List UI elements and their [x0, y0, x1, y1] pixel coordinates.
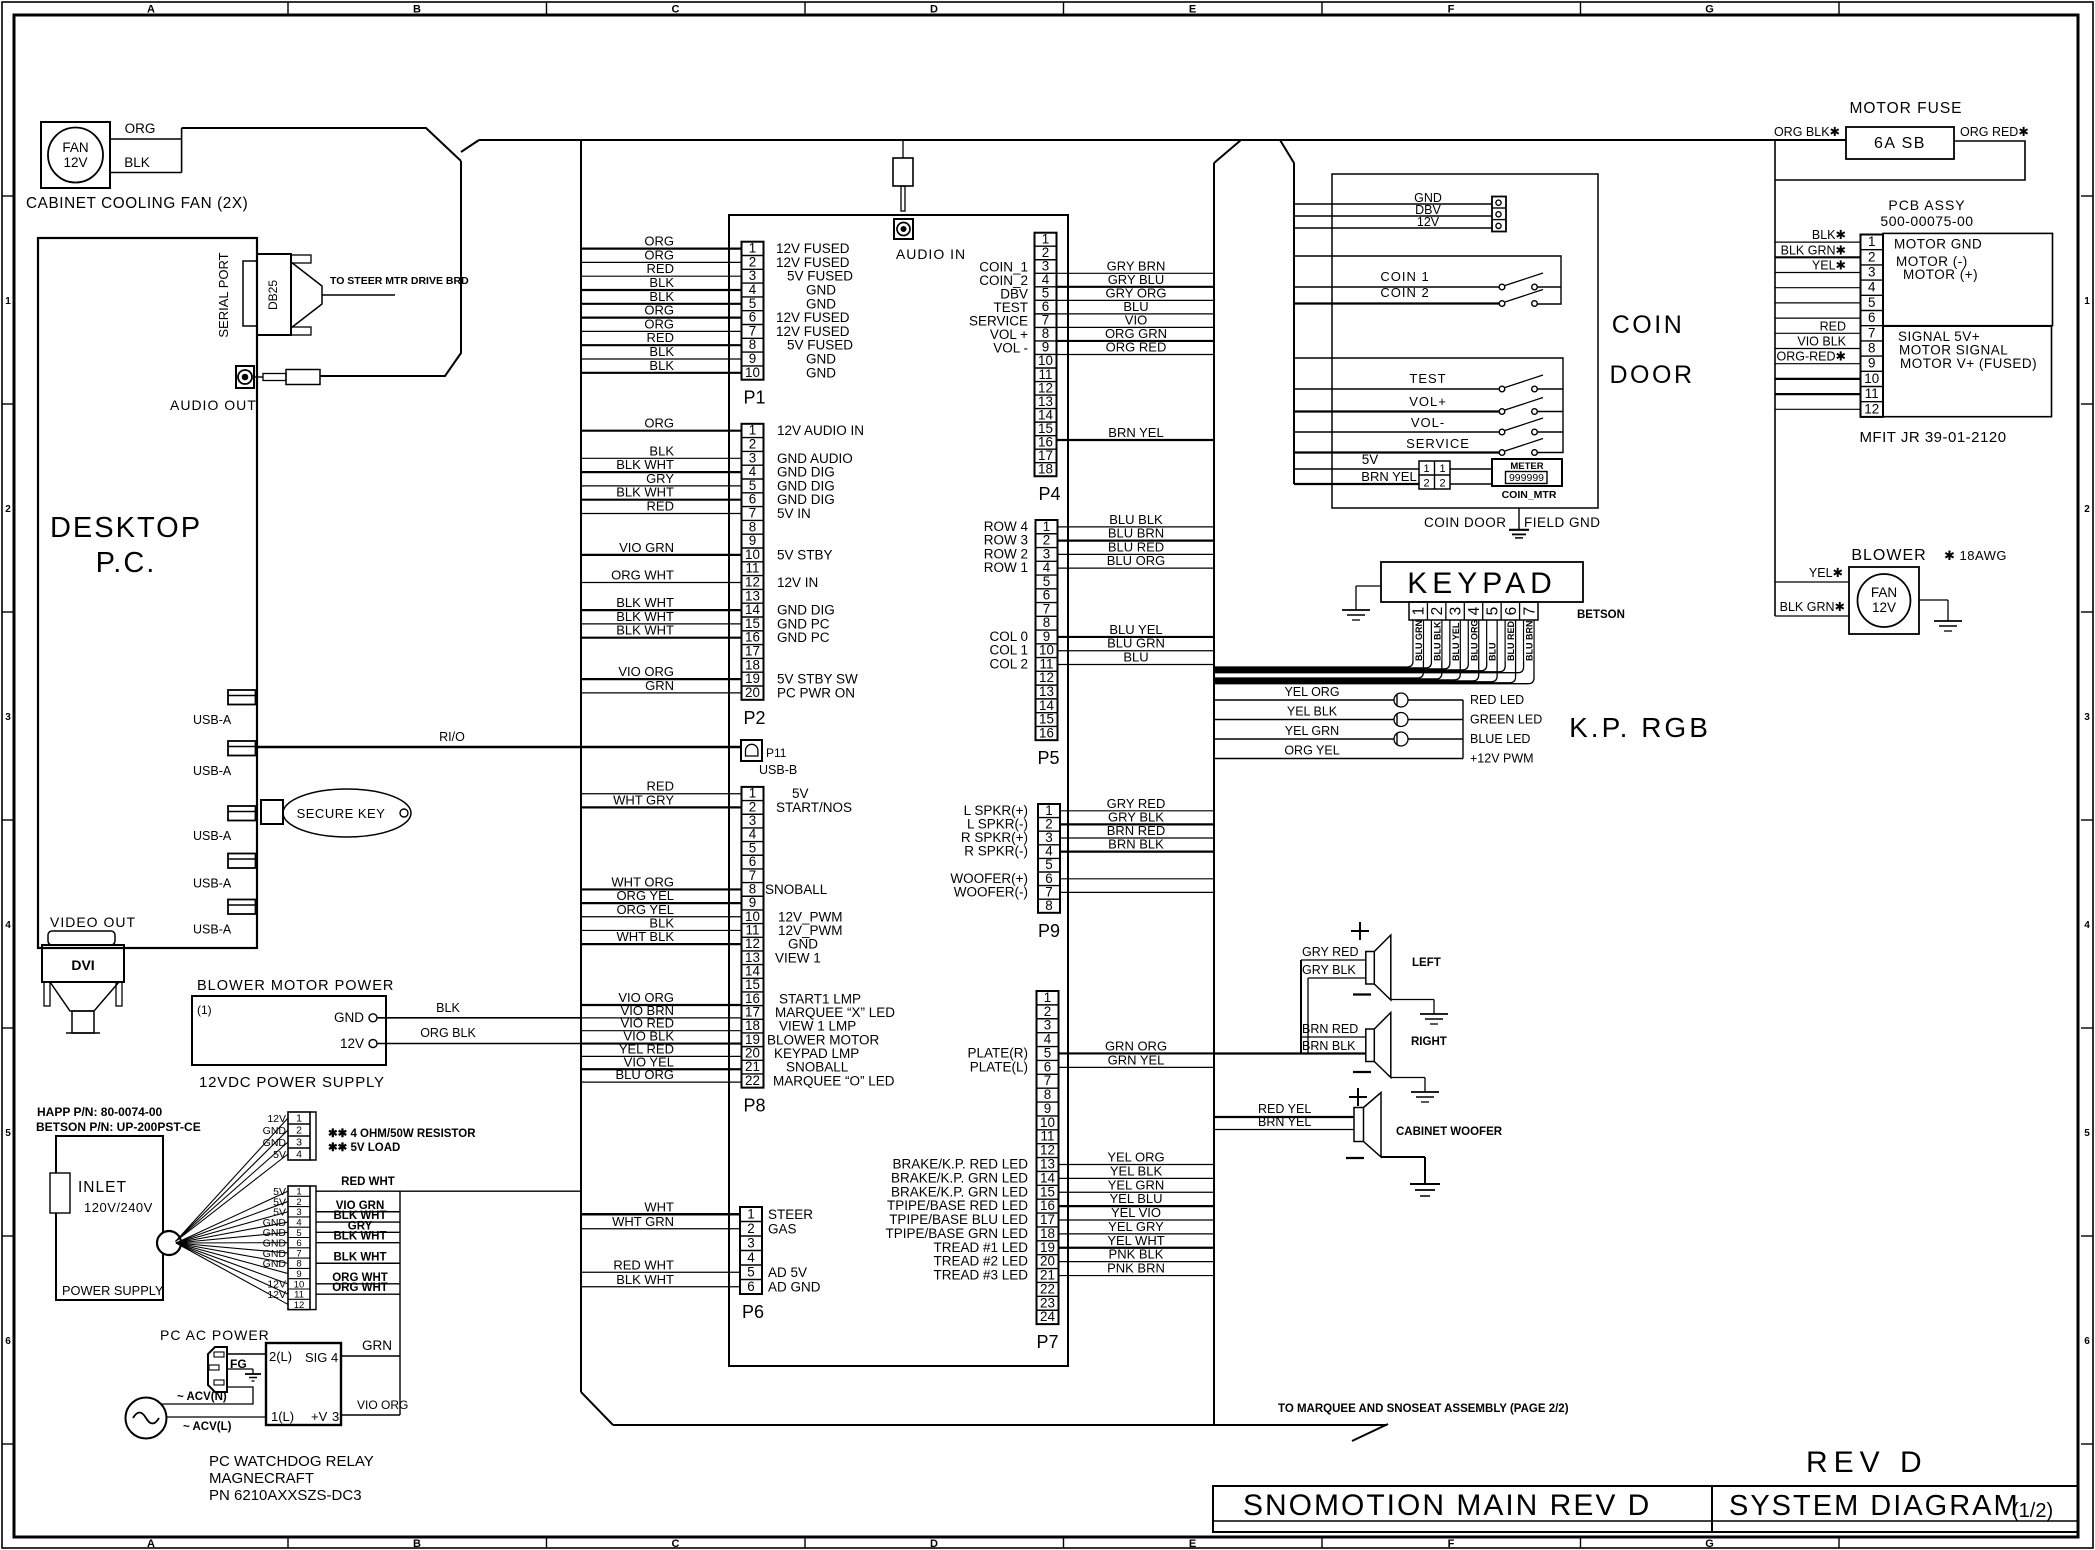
svg-text:GND: GND [806, 352, 836, 367]
power supply 12-pin connector [263, 1186, 316, 1311]
P5 harness wires (keypad rows/cols) [1058, 512, 1215, 665]
svg-text:1: 1 [1868, 234, 1875, 249]
wire RI/O from USB to P11 [256, 746, 742, 748]
svg-text:C: C [672, 4, 680, 16]
svg-text:2: 2 [749, 437, 756, 452]
svg-text:USB-A: USB-A [193, 923, 232, 937]
svg-text:GRN YEL: GRN YEL [1108, 1052, 1165, 1067]
svg-text:1: 1 [747, 1206, 754, 1221]
P2 harness wires [581, 416, 742, 693]
svg-text:BLK WHT: BLK WHT [616, 609, 674, 624]
svg-text:BLK WHT: BLK WHT [616, 485, 674, 500]
right trunk diagonal [1214, 140, 1241, 163]
svg-text:GND DIG: GND DIG [777, 465, 835, 480]
svg-text:2: 2 [1044, 1004, 1051, 1019]
svg-text:6A SB: 6A SB [1874, 135, 1926, 152]
svg-text:MARQUEE “O” LED: MARQUEE “O” LED [773, 1073, 895, 1088]
svg-text:2: 2 [296, 1125, 302, 1137]
svg-text:METER: METER [1510, 461, 1543, 472]
svg-text:BRN YEL: BRN YEL [1108, 425, 1163, 440]
svg-text:1: 1 [1439, 463, 1445, 475]
svg-text:G: G [1705, 1538, 1714, 1550]
P9 pin functions [950, 803, 1028, 900]
svg-text:VIO ORG: VIO ORG [618, 664, 674, 679]
svg-text:1: 1 [749, 423, 756, 438]
USB-A port 1 [193, 690, 256, 727]
svg-text:BLK WHT: BLK WHT [616, 595, 674, 610]
svg-text:20: 20 [1040, 1254, 1055, 1269]
right speaker [1353, 1013, 1447, 1078]
PC power harness wires [316, 1176, 581, 1294]
svg-text:VIO BLK: VIO BLK [1797, 335, 1846, 349]
wire VIO ORG relay +V3 [341, 1398, 408, 1415]
svg-text:5: 5 [1868, 295, 1875, 310]
svg-text:AD 5V: AD 5V [768, 1265, 807, 1280]
cabinet cooling fan FAN 12V [41, 122, 110, 188]
svg-text:BLU RED: BLU RED [1506, 621, 1516, 661]
svg-text:RED LED: RED LED [1470, 693, 1524, 707]
svg-text:VOL-: VOL- [1411, 415, 1445, 430]
svg-text:14: 14 [1039, 698, 1054, 713]
connector P6 [740, 1206, 764, 1322]
svg-text:5: 5 [749, 296, 756, 311]
USB-A port 3 [193, 806, 256, 843]
svg-text:2: 2 [1439, 478, 1445, 490]
svg-text:R SPKR(-): R SPKR(-) [964, 844, 1028, 859]
svg-text:6: 6 [1043, 588, 1050, 603]
svg-text:BLOWER: BLOWER [1851, 547, 1926, 564]
keypad pin header 1-7 [1409, 602, 1538, 620]
svg-text:PC AC POWER: PC AC POWER [160, 1327, 270, 1343]
svg-text:(1): (1) [197, 1003, 212, 1017]
svg-text:BRN YEL: BRN YEL [1361, 469, 1416, 484]
svg-text:12V: 12V [63, 155, 87, 170]
svg-text:YEL✱: YEL✱ [1812, 259, 1847, 273]
coin door box [1332, 174, 1598, 508]
svg-text:B: B [413, 1538, 421, 1550]
svg-text:ORG: ORG [644, 303, 674, 318]
svg-text:ORG YEL: ORG YEL [1284, 744, 1339, 758]
svg-text:USB-A: USB-A [193, 764, 232, 778]
svg-text:9: 9 [749, 351, 756, 366]
svg-text:BLU BRN: BLU BRN [1108, 526, 1164, 541]
svg-text:999999: 999999 [1509, 472, 1544, 484]
svg-text:TO MARQUEE AND SNOSEAT ASSEMB: TO MARQUEE AND SNOSEAT ASSEMBLY (PAGE 2/… [1278, 1403, 1569, 1415]
svg-text:BLK WHT: BLK WHT [616, 623, 674, 638]
svg-text:12V: 12V [1872, 600, 1896, 615]
svg-text:BLU: BLU [1488, 643, 1498, 662]
svg-text:RED: RED [647, 330, 674, 345]
svg-text:13: 13 [745, 588, 760, 603]
svg-text:5V FUSED: 5V FUSED [787, 338, 853, 353]
serial port DB25 connector [243, 254, 322, 335]
svg-text:GND: GND [263, 1258, 287, 1270]
secure key dongle [261, 789, 411, 837]
svg-text:BLU ORG: BLU ORG [1469, 620, 1479, 662]
svg-text:2: 2 [749, 254, 756, 269]
svg-text:ORG RED: ORG RED [1106, 339, 1167, 354]
svg-text:14: 14 [745, 602, 760, 617]
svg-text:TPIPE/BASE RED LED: TPIPE/BASE RED LED [887, 1198, 1028, 1213]
svg-text:500-00075-00: 500-00075-00 [1880, 213, 1973, 229]
VOL+ wire and switch [1294, 394, 1543, 414]
svg-text:6: 6 [1503, 607, 1520, 616]
svg-text:BLK WHT: BLK WHT [333, 1231, 386, 1243]
svg-text:5: 5 [2084, 1128, 2090, 1139]
svg-text:VIO ORG: VIO ORG [357, 1398, 408, 1412]
svg-text:P1: P1 [744, 388, 766, 408]
svg-text:10: 10 [745, 547, 760, 562]
wire ORG BLK blower 12V [377, 1026, 581, 1044]
svg-text:RED WHT: RED WHT [613, 1257, 674, 1272]
USB-A port 2 [193, 741, 256, 778]
svg-text:COL 1: COL 1 [989, 643, 1028, 658]
svg-text:✱ 18AWG: ✱ 18AWG [1944, 548, 2007, 563]
svg-text:MOTOR GND: MOTOR GND [1894, 237, 1982, 252]
labels 4 OHM/50W RESISTOR, 5V LOAD [328, 1128, 476, 1154]
svg-text:15: 15 [1039, 712, 1054, 727]
svg-text:12: 12 [745, 575, 760, 590]
svg-text:2: 2 [2084, 504, 2090, 515]
svg-text:CABINET WOOFER: CABINET WOOFER [1396, 1126, 1503, 1138]
svg-text:USB-A: USB-A [193, 829, 232, 843]
svg-text:13: 13 [1039, 684, 1054, 699]
svg-text:✱✱ 4 OHM/50W RESISTOR: ✱✱ 4 OHM/50W RESISTOR [328, 1128, 476, 1140]
top harness bus wire [479, 139, 1846, 141]
P8 pin functions [765, 786, 895, 1088]
title text SYSTEM DIAGRAM (1/2) [1729, 1490, 2053, 1522]
svg-text:5V STBY SW: 5V STBY SW [777, 672, 858, 687]
svg-text:GRN: GRN [362, 1338, 392, 1353]
svg-text:12: 12 [1864, 401, 1879, 416]
svg-text:7: 7 [1043, 601, 1050, 616]
svg-text:12: 12 [1040, 1143, 1055, 1158]
cabinet woofer ground [1381, 1157, 1440, 1196]
svg-text:11: 11 [746, 561, 760, 576]
svg-text:2: 2 [1429, 607, 1446, 616]
svg-text:PNK BRN: PNK BRN [1107, 1261, 1165, 1276]
svg-text:REV D: REV D [1806, 1446, 1928, 1479]
svg-text:LEFT: LEFT [1412, 957, 1441, 969]
svg-text:MFIT JR 39-01-2120: MFIT JR 39-01-2120 [1859, 429, 2006, 446]
blower fan FAN 12V [1849, 567, 1919, 634]
label COIN DOOR / FIELD GND [1424, 515, 1601, 530]
svg-text:PC PWR ON: PC PWR ON [777, 685, 855, 700]
coin 2 wire and switch [1294, 290, 1543, 307]
svg-text:1: 1 [1423, 463, 1429, 475]
svg-text:5V: 5V [273, 1149, 286, 1161]
svg-text:4: 4 [331, 1350, 338, 1365]
svg-text:10: 10 [1864, 371, 1879, 386]
svg-text:ORG WHT: ORG WHT [611, 568, 674, 583]
svg-text:8: 8 [749, 519, 756, 534]
svg-text:SECURE KEY: SECURE KEY [297, 806, 386, 821]
svg-text:5: 5 [1043, 574, 1050, 589]
svg-text:8: 8 [749, 337, 756, 352]
svg-text:YEL BLU: YEL BLU [1110, 1191, 1163, 1206]
svg-text:GREEN LED: GREEN LED [1470, 713, 1542, 727]
svg-text:BLK: BLK [649, 275, 674, 290]
svg-text:6: 6 [2084, 1336, 2090, 1347]
svg-text:GND: GND [806, 365, 836, 380]
svg-text:GND DIG: GND DIG [777, 478, 835, 493]
svg-text:P6: P6 [742, 1302, 764, 1322]
svg-text:USB-B: USB-B [759, 763, 797, 777]
svg-text:WOOFER(-): WOOFER(-) [954, 884, 1028, 899]
svg-text:~ ACV(N): ~ ACV(N) [177, 1391, 227, 1403]
svg-text:VOL+: VOL+ [1409, 394, 1447, 409]
svg-text:DESKTOP: DESKTOP [50, 512, 202, 544]
svg-text:(1/2): (1/2) [2012, 1500, 2053, 1522]
keypad harness ribbon wires to trunk [1215, 620, 1535, 684]
svg-text:4: 4 [1043, 560, 1051, 575]
svg-text:12V IN: 12V IN [777, 575, 818, 590]
svg-text:FAN: FAN [62, 140, 88, 155]
svg-text:5: 5 [1484, 607, 1501, 616]
svg-text:COL 0: COL 0 [989, 629, 1028, 644]
svg-text:2: 2 [1043, 533, 1050, 548]
svg-text:BETSON: BETSON [1577, 609, 1625, 621]
svg-text:HAPP P/N: 80-0074-00: HAPP P/N: 80-0074-00 [37, 1105, 163, 1119]
wire nest node [157, 1231, 181, 1255]
audio in jack [894, 219, 913, 239]
svg-text:5V STBY: 5V STBY [777, 547, 833, 562]
wire GRN relay SIG4 [341, 1338, 400, 1356]
svg-text:START/NOS: START/NOS [776, 800, 852, 815]
coin meter 2x2 connector [1294, 452, 1450, 490]
svg-text:INLET: INLET [78, 1179, 127, 1196]
svg-text:12V AUDIO IN: 12V AUDIO IN [777, 423, 864, 438]
svg-text:BETSON P/N: UP-200PST-CE: BETSON P/N: UP-200PST-CE [36, 1120, 201, 1134]
svg-text:GRY BLK: GRY BLK [1302, 963, 1356, 977]
svg-text:SERVICE: SERVICE [1406, 436, 1470, 451]
svg-text:8: 8 [1043, 615, 1050, 630]
svg-text:+V: +V [311, 1409, 328, 1424]
left speaker [1351, 922, 1441, 1000]
coin meter METER 999999 [1450, 459, 1562, 501]
svg-text:BRN YEL: BRN YEL [1258, 1115, 1311, 1129]
audio-out trunk vertical [320, 161, 461, 376]
svg-text:YEL GRY: YEL GRY [1108, 1219, 1164, 1234]
svg-text:11: 11 [1865, 386, 1879, 401]
svg-text:BLU BLK: BLU BLK [1432, 621, 1442, 661]
svg-text:3: 3 [1448, 607, 1465, 616]
svg-text:2: 2 [1423, 478, 1429, 490]
svg-text:YEL BLK: YEL BLK [1110, 1163, 1163, 1178]
svg-text:ORG: ORG [644, 316, 674, 331]
connector P2 [742, 423, 766, 728]
svg-text:4: 4 [5, 920, 11, 931]
svg-text:YEL✱: YEL✱ [1809, 566, 1844, 580]
svg-text:BLK WHT: BLK WHT [333, 1251, 386, 1263]
svg-text:COIN: COIN [1612, 311, 1685, 339]
svg-text:A: A [147, 4, 155, 16]
svg-text:1: 1 [1044, 990, 1051, 1005]
relay bus vertical [399, 1191, 401, 1415]
keypad ground stub [1342, 586, 1381, 620]
svg-text:14: 14 [1040, 1170, 1055, 1185]
svg-text:13: 13 [1040, 1157, 1055, 1172]
svg-text:12V: 12V [340, 1036, 364, 1051]
svg-text:RED: RED [647, 499, 674, 514]
svg-text:ROW 3: ROW 3 [984, 533, 1028, 548]
svg-text:RED: RED [647, 261, 674, 276]
svg-text:K.P. RGB: K.P. RGB [1569, 712, 1711, 743]
connector P4 [1035, 231, 1061, 504]
svg-text:BRAKE/K.P. RED LED: BRAKE/K.P. RED LED [892, 1157, 1028, 1172]
svg-text:POWER SUPPLY: POWER SUPPLY [62, 1283, 164, 1298]
test/vol/service switch box [1294, 358, 1563, 453]
audio in plug [893, 140, 913, 211]
IEC power plug [208, 1347, 227, 1392]
svg-text:15: 15 [1040, 1184, 1055, 1199]
svg-text:FIELD GND: FIELD GND [1524, 515, 1601, 530]
svg-text:20: 20 [745, 685, 760, 700]
svg-text:10: 10 [1040, 1115, 1055, 1130]
AC source symbol [126, 1398, 167, 1439]
svg-text:GRN ORG: GRN ORG [1105, 1038, 1167, 1053]
audio out plug [254, 370, 320, 385]
svg-text:MOTOR V+ (FUSED): MOTOR V+ (FUSED) [1900, 356, 2037, 371]
svg-text:BRAKE/K.P. GRN LED: BRAKE/K.P. GRN LED [891, 1170, 1028, 1185]
svg-text:VIO GRN: VIO GRN [619, 540, 674, 555]
svg-text:ORG: ORG [644, 416, 674, 431]
svg-text:ORG WHT: ORG WHT [332, 1282, 388, 1294]
right speaker wires BRN RED / BRN BLK [1301, 1022, 1366, 1053]
LED lamp symbols [1394, 693, 1408, 746]
svg-text:AUDIO IN: AUDIO IN [896, 246, 966, 262]
svg-text:18: 18 [1038, 461, 1053, 476]
svg-text:4: 4 [296, 1149, 302, 1161]
svg-text:1: 1 [749, 241, 756, 256]
svg-text:12V FUSED: 12V FUSED [776, 255, 850, 270]
svg-text:15: 15 [745, 616, 760, 631]
svg-text:RIGHT: RIGHT [1411, 1036, 1447, 1048]
svg-text:19: 19 [1040, 1240, 1055, 1255]
svg-text:✱✱ 5V LOAD: ✱✱ 5V LOAD [328, 1142, 400, 1154]
svg-text:SIG: SIG [305, 1350, 327, 1365]
left speaker ground [1391, 1000, 1448, 1025]
coin 1 wire and switch [1294, 273, 1543, 290]
svg-text:ORG RED✱: ORG RED✱ [1960, 125, 2029, 139]
svg-text:TO STEER MTR DRIVE BRD: TO STEER MTR DRIVE BRD [330, 275, 469, 287]
wire ACV(L) [167, 1417, 267, 1433]
speaker feed bus from trunk [1214, 960, 1366, 1054]
svg-text:SNOBALL: SNOBALL [765, 882, 828, 897]
wire BLK blower gnd [377, 1001, 581, 1018]
svg-text:BLK WHT: BLK WHT [616, 457, 674, 472]
svg-text:YEL WHT: YEL WHT [1107, 1233, 1164, 1248]
svg-text:12: 12 [1039, 670, 1054, 685]
row numbers right [2084, 296, 2090, 1347]
coin switch box COIN1/COIN2 [1294, 256, 1561, 304]
svg-text:BLU GRN: BLU GRN [1107, 636, 1165, 651]
svg-text:6: 6 [1044, 1059, 1051, 1074]
svg-text:4: 4 [1868, 280, 1876, 295]
main I/O board outline [729, 215, 1068, 1366]
svg-text:D: D [930, 1538, 938, 1550]
USB-B connector P11 [741, 740, 797, 777]
svg-text:GND: GND [806, 296, 836, 311]
svg-text:GND PC: GND PC [777, 616, 830, 631]
DVI connector [42, 931, 124, 1033]
svg-text:GND PC: GND PC [777, 630, 830, 645]
svg-text:6: 6 [5, 1336, 11, 1347]
svg-text:8: 8 [1044, 1087, 1051, 1102]
svg-text:BLK: BLK [649, 289, 674, 304]
right harness trunk vertical [1213, 163, 1215, 1425]
svg-text:YEL VIO: YEL VIO [1111, 1205, 1161, 1220]
svg-text:P8: P8 [744, 1096, 766, 1116]
svg-text:YEL BLK: YEL BLK [1287, 705, 1338, 719]
svg-text:8: 8 [1045, 898, 1052, 913]
svg-text:TPIPE/BASE BLU LED: TPIPE/BASE BLU LED [889, 1212, 1028, 1227]
svg-text:TEST: TEST [1409, 371, 1446, 386]
svg-text:6: 6 [1868, 310, 1875, 325]
svg-text:FAN: FAN [1871, 585, 1897, 600]
svg-text:BLK WHT: BLK WHT [616, 1272, 674, 1287]
svg-text:10: 10 [1039, 643, 1054, 658]
svg-text:3: 3 [749, 268, 756, 283]
labels HAPP/BETSON part numbers [36, 1105, 201, 1134]
svg-text:AUDIO OUT: AUDIO OUT [170, 397, 257, 413]
svg-text:P4: P4 [1039, 484, 1061, 504]
motor fuse 6A SB [1774, 125, 2029, 159]
svg-text:GAS: GAS [768, 1221, 797, 1236]
svg-text:DOOR: DOOR [1610, 361, 1695, 389]
svg-text:TREAD #2 LED: TREAD #2 LED [933, 1254, 1028, 1269]
svg-text:PC WATCHDOG RELAY: PC WATCHDOG RELAY [209, 1453, 374, 1470]
svg-text:4: 4 [749, 282, 757, 297]
PCB assy function boxes [1883, 233, 2053, 416]
svg-text:BLK: BLK [649, 443, 674, 458]
svg-text:7: 7 [1868, 325, 1875, 340]
svg-text:ORG BLK: ORG BLK [420, 1026, 476, 1040]
connector P1 [742, 241, 766, 408]
harness wire fan to trunk [182, 128, 461, 161]
svg-text:YEL GRN: YEL GRN [1108, 1177, 1165, 1192]
cabinet woofer speaker [1346, 1088, 1503, 1158]
svg-text:ORG BLK✱: ORG BLK✱ [1774, 125, 1841, 139]
svg-text:9: 9 [1043, 629, 1050, 644]
svg-text:5: 5 [5, 1128, 11, 1139]
svg-text:BLK GRN✱: BLK GRN✱ [1781, 243, 1847, 257]
svg-text:G: G [1705, 4, 1714, 16]
P7 pin functions [885, 1045, 1028, 1282]
svg-text:BLU ORG: BLU ORG [1107, 553, 1166, 568]
coin-door bus diagonal [1280, 140, 1294, 163]
TEST wire and switch [1294, 371, 1543, 392]
svg-text:DB25: DB25 [266, 280, 280, 310]
svg-text:11: 11 [1041, 1129, 1055, 1144]
svg-text:16: 16 [745, 630, 760, 645]
right speaker ground [1391, 1078, 1439, 1103]
svg-text:4: 4 [749, 464, 757, 479]
svg-text:VIDEO OUT: VIDEO OUT [50, 914, 136, 930]
P5 pin functions [984, 519, 1029, 672]
svg-text:ROW 4: ROW 4 [984, 519, 1029, 534]
connector P7 [1037, 990, 1059, 1352]
svg-text:BLU ORG: BLU ORG [615, 1067, 674, 1082]
svg-text:16: 16 [1039, 725, 1054, 740]
P4 pin functions [969, 259, 1028, 355]
svg-text:STEER: STEER [768, 1207, 813, 1222]
svg-text:6: 6 [747, 1279, 754, 1294]
svg-text:19: 19 [745, 671, 760, 686]
svg-text:17: 17 [745, 644, 760, 659]
svg-text:18: 18 [745, 657, 760, 672]
svg-text:BLU BRN: BLU BRN [1525, 621, 1535, 662]
